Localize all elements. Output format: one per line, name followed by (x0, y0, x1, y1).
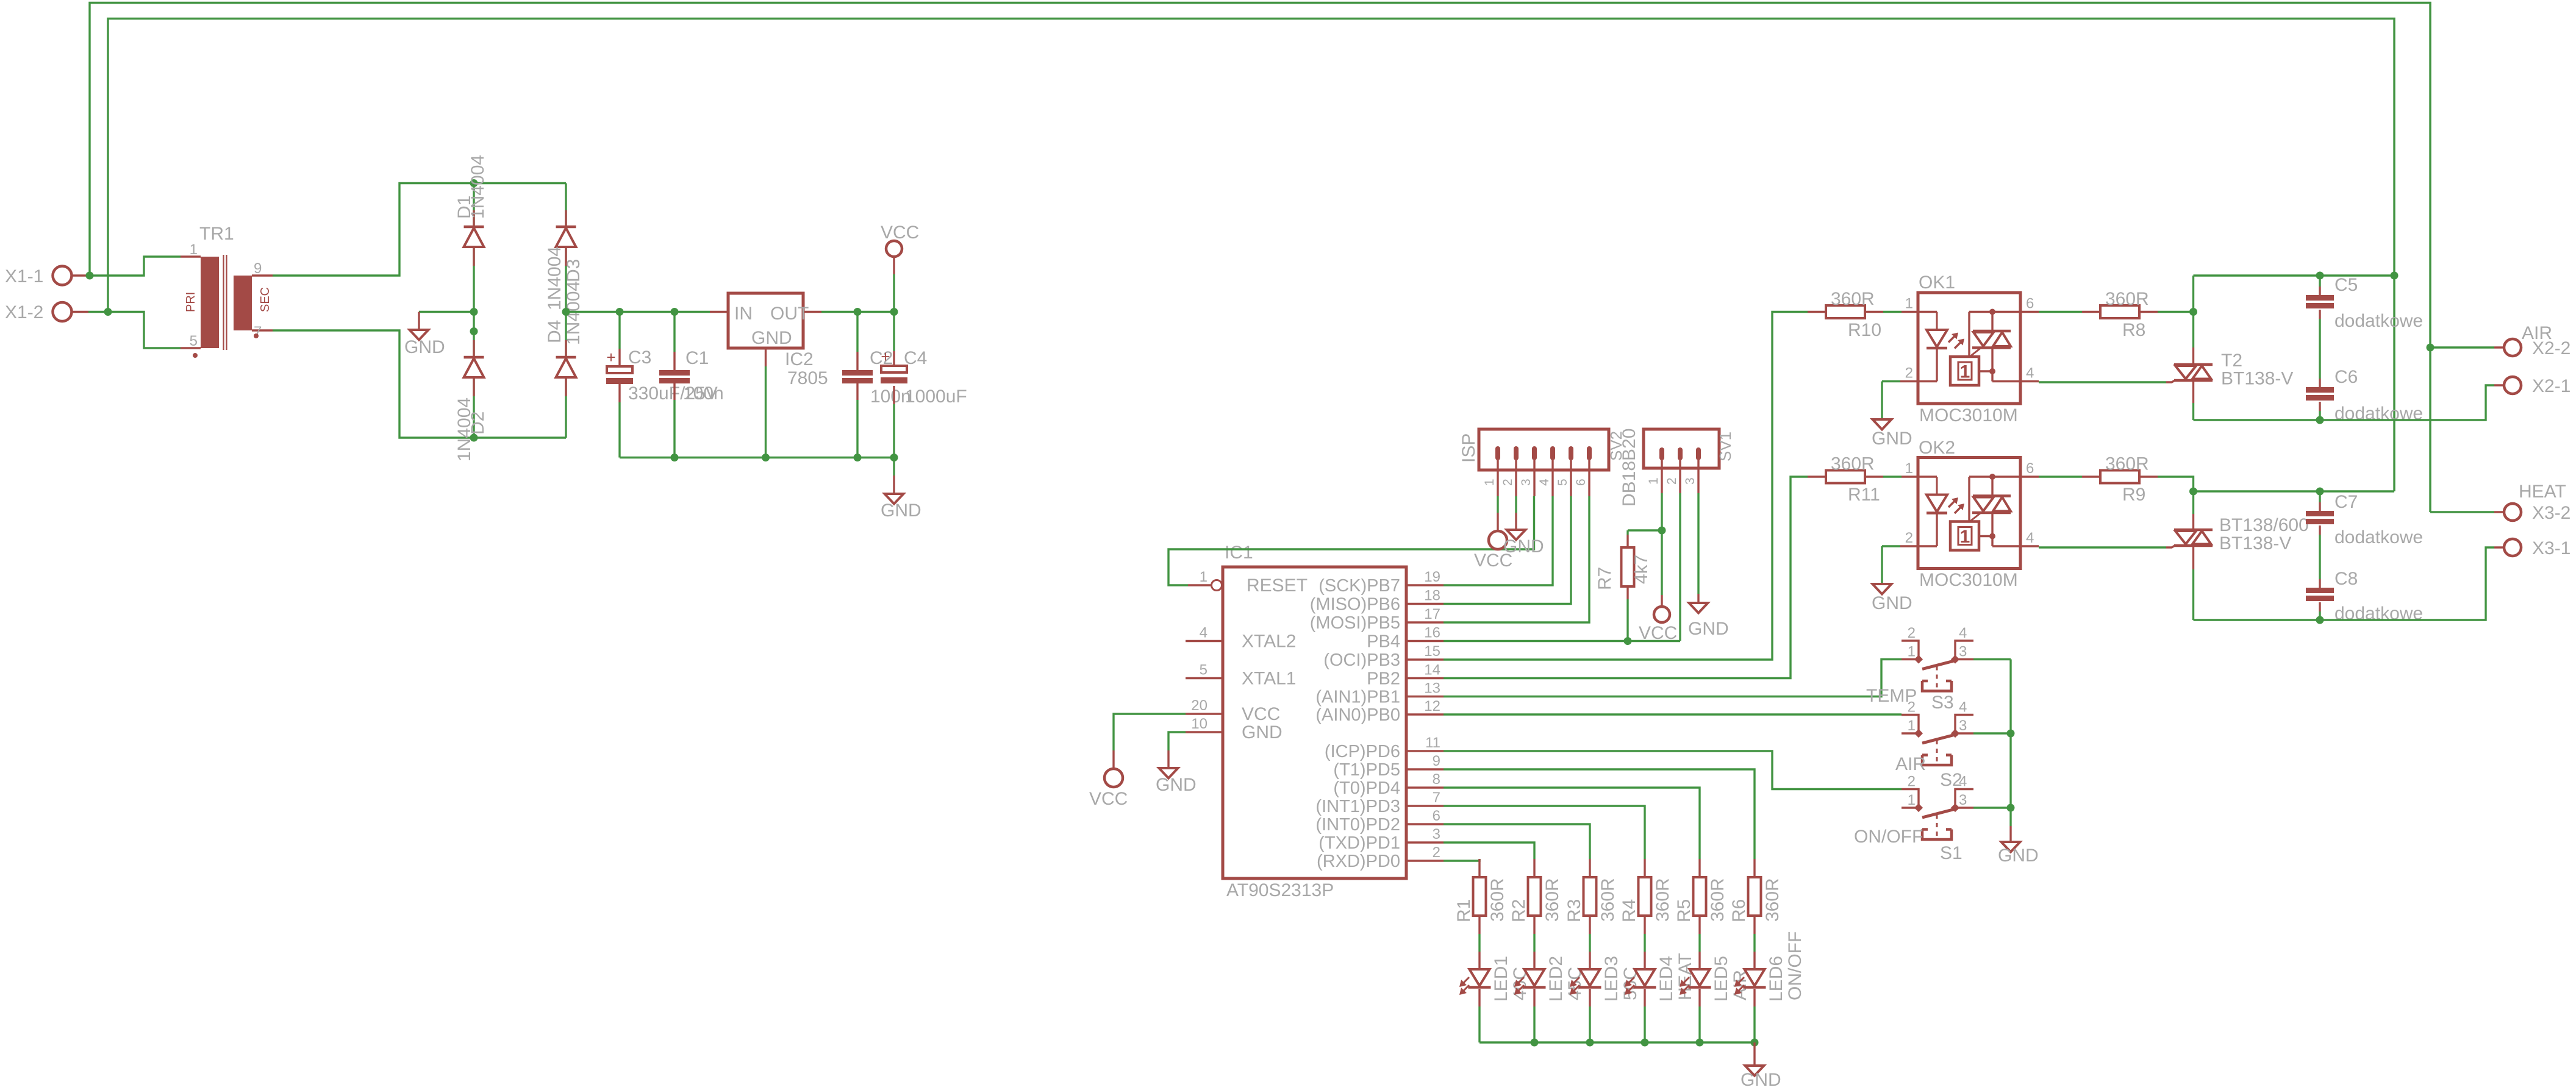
ground GND leds (1745, 1066, 1764, 1076)
svg-text:C8: C8 (2334, 569, 2358, 589)
label (TXD)PD1 (1318, 833, 1400, 853)
svg-text:1: 1 (1960, 527, 1970, 547)
svg-text:PB2: PB2 (1367, 669, 1400, 689)
wire D1-D2 column (473, 183, 474, 438)
power VCC SV1 (1654, 607, 1670, 622)
label (T0)PD4 (1333, 778, 1400, 798)
label LED6 (1766, 956, 1786, 1002)
label R6 (1729, 899, 1749, 922)
connector X3-2 (2494, 504, 2521, 521)
svg-text:1000uF: 1000uF (905, 386, 967, 407)
svg-text:LED1: LED1 (1491, 956, 1511, 1002)
resistor R8 (2100, 305, 2139, 318)
label LED3 value 50C (1620, 967, 1640, 1000)
svg-text:R8: R8 (2122, 320, 2145, 340)
switch S3 pin labels (1908, 625, 1967, 660)
svg-text:(T1)PD5: (T1)PD5 (1333, 760, 1400, 780)
capacitor C2 (842, 370, 873, 383)
svg-text:16: 16 (1424, 625, 1440, 641)
capacitor C4 (881, 347, 907, 383)
label pin10 number (1191, 716, 1207, 732)
header SV2 box (1479, 429, 1609, 470)
diode D3 (556, 227, 576, 247)
wire PB0 to S2 (1444, 713, 1902, 715)
diode D3 stubs (565, 210, 567, 266)
svg-text:1N4004: 1N4004 (468, 155, 488, 219)
label SV2 (1607, 431, 1625, 461)
label S1 (1940, 843, 1962, 863)
svg-text:C5: C5 (2334, 275, 2358, 295)
ground GND switches (2002, 842, 2020, 852)
svg-text:SEC: SEC (259, 287, 272, 312)
junction IC2 gnd bus (762, 454, 770, 461)
junction AC1/X2-2 (2427, 344, 2435, 352)
ground GND OK1 (1873, 419, 1892, 430)
label D4 value 1N4004 (545, 246, 565, 310)
ground GND ISP (1507, 530, 1526, 540)
led LED4 stubs (1644, 952, 1645, 1006)
wire R9 to T3 (2158, 477, 2194, 491)
capacitor C6 wires (2319, 379, 2320, 420)
header SV1 pad 2 (1678, 447, 1683, 460)
wire PB1 to S3 (1444, 660, 1902, 697)
label C1 (685, 348, 709, 368)
regulator IC2 pins (710, 312, 821, 367)
wire TR1 pin7 to bridge bottom (273, 330, 566, 438)
svg-text:DB18B20: DB18B20 (1619, 429, 1639, 507)
led LED1 stubs (1478, 952, 1480, 1006)
label RESET (1247, 575, 1308, 596)
junction bridge output (562, 308, 570, 316)
header SV1 pin 3 stub (1697, 460, 1699, 493)
label R9 (2122, 485, 2145, 505)
label C1 value (683, 383, 724, 404)
label ISP (1459, 433, 1479, 463)
label pin7 number (1433, 789, 1440, 806)
header SV2 pad 6 (1587, 446, 1592, 460)
label pin1 number (1200, 569, 1207, 585)
svg-text:360R: 360R (1831, 289, 1875, 309)
wire PD0 to R1 (1444, 859, 1479, 861)
header SV2 pin 2 stub (1515, 460, 1517, 496)
svg-text:6: 6 (2026, 296, 2034, 312)
svg-text:XTAL1: XTAL1 (1242, 669, 1297, 689)
svg-text:360R: 360R (1653, 878, 1673, 922)
svg-text:5: 5 (1556, 479, 1570, 486)
label X3-1 (2532, 538, 2571, 558)
junction led bus (1531, 1039, 1539, 1047)
svg-text:GND: GND (1998, 846, 2039, 866)
wire T3 column lower (2192, 569, 2194, 620)
regulator IC2 box (728, 293, 803, 348)
svg-text:GND: GND (881, 500, 921, 521)
wire AC1 to X3-2 (2430, 511, 2494, 513)
wire R1 to LED1 (1478, 934, 1480, 952)
svg-text:LED5: LED5 (1711, 956, 1731, 1002)
label pin12 number (1424, 698, 1440, 714)
ic IC1 pin 15 (OCI)PB3 stub (1406, 658, 1444, 660)
label D3 value 1N4004 (563, 281, 584, 345)
svg-text:1: 1 (1483, 479, 1497, 486)
svg-text:dodatkowe: dodatkowe (2334, 311, 2423, 331)
label GND SV1 (1688, 619, 1729, 639)
label GND pin (1242, 722, 1283, 743)
svg-text:GND: GND (1872, 429, 1912, 449)
wire PB4 row (1444, 640, 1680, 642)
resistor R6 stubs (1753, 859, 1755, 934)
junction C6 bottom (2316, 416, 2324, 424)
junction snubber2 rail (2189, 488, 2197, 496)
label pin17 number (1424, 606, 1440, 622)
wire OUT rail (821, 311, 894, 313)
label TEMP (1866, 686, 1917, 706)
label TR1 (199, 224, 234, 244)
wire R10 to OK1 (1883, 311, 1902, 313)
capacitor C2 wires (856, 312, 858, 458)
svg-text:360R: 360R (1598, 878, 1618, 922)
svg-text:S3: S3 (1931, 693, 1954, 713)
svg-text:3: 3 (1683, 477, 1697, 485)
svg-text:4: 4 (1959, 774, 1967, 790)
svg-text:R9: R9 (2122, 485, 2145, 505)
svg-text:T2: T2 (2221, 351, 2242, 371)
label C6 (2334, 367, 2358, 387)
svg-text:1: 1 (1905, 296, 1913, 312)
label C8 (2334, 569, 2358, 589)
ic IC1 pin 9 (T1)PD5 stub (1406, 768, 1444, 770)
wire SV1 pin3 to GND (1697, 493, 1699, 603)
wire T3 column upper (2192, 491, 2194, 514)
label (MISO)PB6 (1310, 595, 1400, 614)
svg-text:X3-2: X3-2 (2532, 503, 2571, 523)
junction C1 bus (671, 454, 679, 461)
header SV1 pad 1 (1659, 447, 1664, 460)
svg-text:2: 2 (1908, 625, 1916, 641)
svg-text:OUT: OUT (770, 304, 809, 324)
wire OK2 pin6 to R9 (2020, 476, 2082, 477)
resistor R3 (1584, 877, 1597, 916)
resistor R10 stubs (1808, 311, 1883, 313)
connector X2-1 (2494, 377, 2521, 394)
svg-text:XTAL2: XTAL2 (1242, 632, 1297, 652)
label GND bridge (404, 337, 445, 357)
svg-text:SV1: SV1 (1716, 432, 1734, 461)
wire switch gnd bus (2009, 660, 2011, 827)
wire R7 top (1628, 530, 1662, 535)
ic IC1 pin 4 XTAL2 stub (1186, 640, 1223, 642)
wire R2 to LED2 (1533, 934, 1535, 952)
label SV1 (1716, 432, 1734, 461)
svg-text:BT138-V: BT138-V (2221, 369, 2293, 389)
diode D1 stubs (473, 210, 474, 266)
capacitor C7 (2306, 511, 2334, 524)
label OK2 pin4 (2026, 530, 2034, 546)
junction C3 top (616, 308, 624, 316)
led LED2 (1514, 969, 1546, 995)
ic IC1 pin 2 (RXD)PD0 stub (1406, 860, 1444, 861)
svg-text:GND: GND (751, 328, 792, 348)
wire OK1 pin6 to R8 (2020, 311, 2082, 313)
ic IC1 pin 10 GND stub (1186, 731, 1223, 733)
svg-text:+: + (606, 348, 615, 366)
svg-text:4k7: 4k7 (1631, 555, 1651, 584)
label R8 (2122, 320, 2145, 340)
label LED1 (1491, 956, 1511, 1002)
svg-text:(MISO)PB6: (MISO)PB6 (1310, 595, 1400, 614)
svg-text:X2-1: X2-1 (2532, 376, 2571, 396)
resistor R9 (2100, 471, 2139, 483)
label R6 value 360R (1762, 878, 1783, 922)
triac T3 gate lead (2166, 546, 2175, 548)
svg-text:LED6: LED6 (1766, 956, 1786, 1002)
ground GND IC1 stub (1167, 750, 1169, 768)
ground GND switches stub (2009, 826, 2011, 842)
svg-text:IC1: IC1 (1225, 543, 1253, 563)
label IC2 value 7805 (787, 368, 828, 388)
label GND leds (1741, 1070, 1781, 1090)
svg-text:R3: R3 (1564, 899, 1584, 922)
label (INT1)PD3 (1315, 797, 1400, 816)
label T3 value BT138-V (2219, 533, 2291, 554)
ic IC1 pin 14 PB2 stub (1406, 677, 1444, 679)
label GND switches (1998, 846, 2039, 866)
svg-text:MOC3010M: MOC3010M (1919, 570, 2018, 590)
svg-text:4: 4 (1537, 479, 1551, 486)
svg-text:D2: D2 (468, 411, 488, 435)
svg-text:S1: S1 (1940, 843, 1962, 863)
led LED5 (1680, 969, 1711, 995)
label pin16 number (1424, 625, 1440, 641)
junction C7 top (2316, 488, 2324, 496)
header SV2 pin 5 stub (1570, 460, 1572, 496)
junction C2 bus (854, 454, 862, 461)
svg-text:MOC3010M: MOC3010M (1919, 405, 2018, 426)
svg-text:12: 12 (1424, 698, 1440, 714)
label (SCK)PB7 (1318, 576, 1400, 596)
svg-text:6: 6 (1433, 808, 1440, 824)
label VCC ISP (1474, 550, 1512, 571)
ground GND main stub (893, 458, 895, 494)
label R3 value 360R (1598, 878, 1618, 922)
header SV1 pin 1 stub (1661, 460, 1662, 493)
svg-text:D4: D4 (545, 320, 565, 343)
label PRI (184, 292, 198, 312)
label C7 value dodatkowe (2334, 527, 2423, 547)
resistor R11 (1826, 471, 1865, 483)
svg-text:R6: R6 (1729, 899, 1749, 922)
label OK1 (1919, 272, 1955, 293)
ground GND bridge stub (418, 312, 420, 330)
svg-text:(AIN0)PB0: (AIN0)PB0 (1315, 705, 1400, 725)
wire IC1 VCC (1114, 714, 1186, 750)
ground GND OK2 (1873, 584, 1892, 594)
label (OCI)PB3 (1323, 650, 1400, 670)
switch S2 AIR (1902, 715, 1973, 767)
svg-text:10: 10 (1191, 716, 1207, 732)
svg-text:360R: 360R (2105, 454, 2149, 474)
svg-text:4: 4 (2026, 365, 2034, 382)
label (INT0)PD2 (1315, 815, 1400, 835)
label SV2 pin 5 (1556, 479, 1570, 486)
wire LED3 to bus (1589, 1006, 1590, 1042)
label pin13 number (1424, 680, 1440, 697)
label C3 value (628, 383, 718, 404)
resistor R8 stubs (2082, 311, 2158, 313)
ic IC1 pin 20 VCC stub (1186, 713, 1223, 714)
label SEC (259, 287, 272, 312)
svg-text:R10: R10 (1848, 320, 1881, 340)
label pin18 number (1424, 588, 1440, 604)
label pin2 number (1433, 844, 1440, 861)
header SV1 box (1644, 429, 1719, 468)
wire R4 to LED4 (1644, 934, 1645, 952)
label SV2 pin 2 (1501, 479, 1515, 486)
label OK1 pin2 (1905, 365, 1913, 382)
ic IC1 pin 13 (AIN1)PB1 stub (1406, 696, 1444, 697)
label IC2 IN (734, 304, 753, 324)
svg-text:R1: R1 (1454, 899, 1474, 922)
ic IC1 pin 3 (TXD)PD1 stub (1406, 841, 1444, 843)
label VCC SV1 (1639, 623, 1677, 643)
power VCC IC1 (1104, 769, 1123, 787)
svg-text:360R: 360R (2105, 289, 2149, 309)
svg-text:2: 2 (1501, 479, 1515, 486)
label OK2 value MOC3010M (1919, 570, 2018, 590)
label R2 value 360R (1542, 878, 1562, 922)
label pin11 number (1425, 735, 1440, 751)
wire IC1 GND (1168, 732, 1186, 750)
svg-text:1: 1 (190, 241, 198, 258)
label HEAT (2519, 482, 2566, 502)
svg-text:19: 19 (1424, 569, 1440, 585)
label SV2 pin 3 (1519, 479, 1533, 486)
svg-text:7: 7 (1433, 789, 1440, 806)
svg-text:13: 13 (1424, 680, 1440, 697)
svg-text:3: 3 (1959, 644, 1967, 660)
wire snubber1 bottom rail (2194, 385, 2495, 420)
ground GND leds stub (1753, 1042, 1755, 1066)
svg-text:1: 1 (1908, 644, 1916, 660)
svg-text:3: 3 (1433, 826, 1440, 842)
label C4 (904, 348, 927, 368)
header SV2 pad 3 (1532, 446, 1537, 460)
label R2 (1509, 899, 1529, 922)
label LED5 (1711, 956, 1731, 1002)
label R8 value 360R (2105, 289, 2149, 309)
label S3 (1931, 693, 1954, 713)
svg-text:2: 2 (1908, 774, 1916, 790)
svg-text:BT138/600: BT138/600 (2219, 515, 2309, 535)
optocoupler OK1 pin1 stub (1902, 311, 1918, 313)
svg-text:ON/OFF: ON/OFF (1785, 931, 1805, 1000)
svg-text:GND: GND (1741, 1070, 1781, 1090)
svg-text:1: 1 (1908, 792, 1916, 808)
wire R3 to LED3 (1589, 934, 1590, 952)
svg-text:AIR: AIR (1895, 754, 1926, 774)
wire SV1 pin1 to VCC (1661, 493, 1662, 595)
ground GND SV1 (1689, 603, 1708, 613)
svg-text:RESET: RESET (1247, 575, 1308, 596)
svg-text:1: 1 (1905, 460, 1913, 477)
label R9 value 360R (2105, 454, 2149, 474)
label SV1 pin 1 (1647, 477, 1661, 485)
label IC2 (785, 349, 814, 369)
label SV1 pin 3 (1683, 477, 1697, 485)
label X3-2 (2532, 503, 2571, 523)
label AIR (2522, 323, 2552, 343)
ic IC1 pin 7 (INT1)PD3 stub (1406, 805, 1444, 807)
label GND ISP (1503, 536, 1544, 557)
resistor R1 stubs (1478, 859, 1480, 934)
switch S2 pin labels (1908, 699, 1967, 735)
label D2 value 1N4004 (454, 397, 474, 461)
svg-text:3: 3 (1959, 792, 1967, 808)
capacitor C8 (2306, 588, 2334, 601)
label IC1 (1225, 543, 1253, 563)
label R5 value 360R (1708, 878, 1728, 922)
header SV1 pin 2 stub (1679, 460, 1681, 493)
resistor R4 stubs (1644, 859, 1645, 934)
wire PD1 to R2 (1444, 842, 1534, 859)
label X2-1 (2532, 376, 2571, 396)
ic IC1 pin 11 (ICP)PD6 stub (1406, 750, 1444, 752)
resistor R4 (1639, 877, 1651, 916)
svg-text:PB4: PB4 (1367, 632, 1400, 652)
label TR1 pin5 (190, 333, 198, 349)
label C6 value dodatkowe (2334, 404, 2423, 424)
optocoupler OK1 (1918, 293, 2020, 404)
svg-text:4: 4 (2026, 530, 2034, 546)
resistor R7 (1622, 547, 1634, 586)
svg-text:R2: R2 (1509, 899, 1529, 922)
label C2 (870, 348, 893, 368)
svg-text:LED4: LED4 (1656, 956, 1676, 1002)
capacitor C1 (659, 370, 690, 383)
label R4 (1619, 899, 1639, 922)
label VCC IC1 (1089, 789, 1128, 809)
junction C8 bottom (2316, 616, 2324, 624)
svg-text:8: 8 (1433, 771, 1440, 788)
svg-text:OK2: OK2 (1919, 438, 1955, 458)
wire PD6 to S1 (1444, 751, 1902, 789)
svg-text:R7: R7 (1595, 567, 1615, 590)
wire SV1 pin2 to PB4 (1679, 493, 1681, 641)
label VCC top (881, 223, 919, 243)
label (RXD)PD0 (1317, 852, 1400, 871)
svg-text:X2-2: X2-2 (2532, 338, 2571, 358)
label XTAL2 (1242, 632, 1297, 652)
label pin9 number (1433, 753, 1440, 769)
label LED1 value 40C (1510, 967, 1530, 1000)
junction led bus (1586, 1039, 1594, 1047)
svg-text:4: 4 (1959, 625, 1967, 641)
label X1-1 (5, 266, 43, 287)
svg-text:C6: C6 (2334, 367, 2358, 387)
wire RESET to ISP pin3 (1168, 496, 1534, 585)
ground GND IC1 (1159, 768, 1178, 778)
junction T2 gate node (2189, 308, 2197, 316)
svg-text:GND: GND (1156, 775, 1197, 795)
junction GND tee (470, 308, 478, 316)
ic IC1 pin 18 (MISO)PB6 stub (1406, 603, 1444, 605)
triac T2 stubs (2192, 347, 2194, 403)
switch S3 TEMP (1902, 641, 1973, 693)
transformer TR1 secondary pin7 stub (252, 329, 273, 331)
svg-text:R4: R4 (1619, 899, 1639, 922)
svg-text:6: 6 (2026, 460, 2034, 477)
header SV2 pad 1 (1495, 446, 1500, 460)
label AIR sw (1895, 754, 1926, 774)
